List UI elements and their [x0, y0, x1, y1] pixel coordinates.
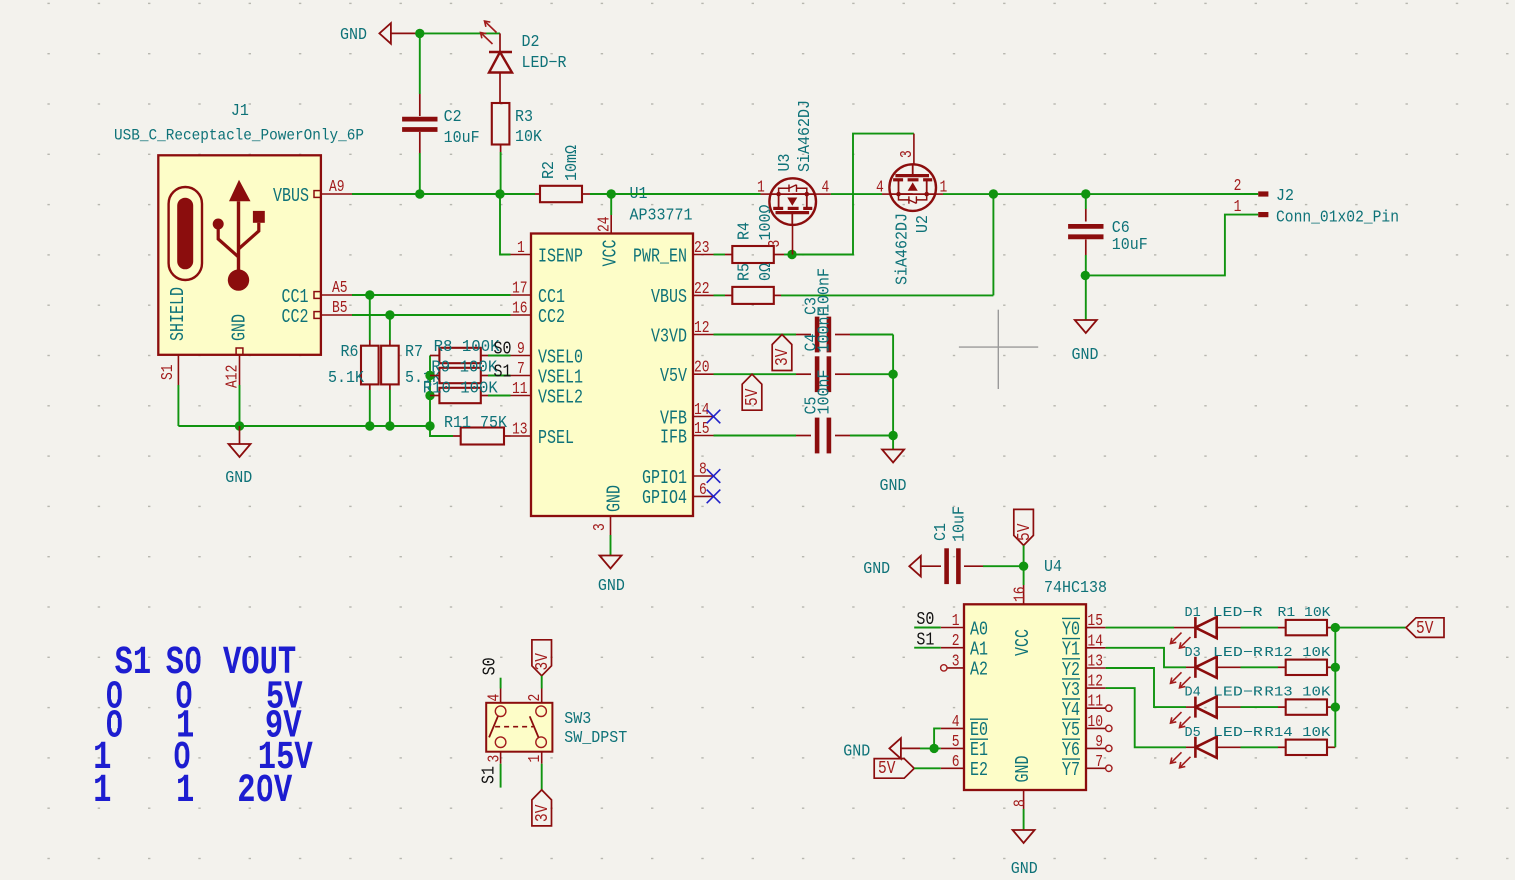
svg-text:4: 4: [876, 179, 884, 197]
svg-text:100nF: 100nF: [815, 370, 834, 415]
resistor R2: [535, 186, 761, 202]
junction C6/J2pin1: [1081, 271, 1090, 280]
pin 4 of U2: [876, 179, 889, 197]
pin 14 Y1 of U4: [1062, 633, 1106, 661]
svg-text:E2: E2: [970, 761, 988, 782]
svg-text:S1: S1: [160, 364, 178, 380]
svg-text:J2: J2: [1276, 186, 1294, 205]
capacitor C6: [1068, 194, 1103, 275]
svg-text:B5: B5: [332, 300, 348, 318]
svg-text:7: 7: [1095, 754, 1103, 772]
pin 9 VSEL0 of U1: [511, 341, 583, 369]
svg-text:4: 4: [822, 179, 830, 197]
junction R7 bottom: [385, 421, 394, 430]
power flag 5V above U4: [1014, 509, 1036, 545]
label S0 at U4: [914, 610, 941, 631]
svg-text:2: 2: [527, 694, 545, 702]
no-connect GPIO4: [707, 490, 721, 504]
svg-text:3: 3: [767, 240, 785, 248]
svg-text:VBUS: VBUS: [651, 288, 687, 309]
pin 8 GND of U4: [1012, 756, 1034, 830]
svg-text:VCC: VCC: [1013, 629, 1034, 656]
wire V3VD: [714, 334, 812, 336]
svg-text:V5V: V5V: [660, 366, 687, 387]
junction R4/U3 gate: [787, 250, 796, 259]
ground symbol caps: [880, 450, 907, 496]
svg-text:V3VD: V3VD: [651, 327, 687, 348]
pin 1 of U3: [757, 179, 770, 197]
wire E1/E0: [920, 728, 941, 748]
svg-text:R3: R3: [515, 107, 533, 126]
label U3: [775, 100, 814, 172]
svg-text:A5: A5: [332, 280, 348, 298]
pin 5 E1 of U4: [941, 734, 988, 762]
switch SW3 body: [486, 703, 552, 752]
label D4: [1185, 686, 1263, 701]
resistor R9: [430, 368, 511, 383]
junction R6 bottom: [365, 421, 374, 430]
svg-text:IFB: IFB: [660, 428, 687, 449]
svg-text:LED−R: LED−R: [1213, 686, 1263, 701]
svg-text:15: 15: [1087, 613, 1103, 631]
svg-text:D3: D3: [1185, 646, 1201, 661]
power flag 5V at E2: [874, 759, 941, 780]
pin 7 Y7 of U4: [1062, 754, 1112, 782]
wire 5V bus verticals: [1334, 628, 1336, 748]
svg-text:GND: GND: [225, 468, 252, 487]
switch SW3 poles: [489, 706, 546, 748]
cursor crosshair: [959, 310, 1038, 389]
pin 11 Y4 of U4: [1062, 694, 1112, 722]
resistor R8: [430, 348, 511, 363]
svg-text:CC2: CC2: [282, 307, 309, 328]
resistor R1: [1241, 620, 1336, 635]
wire VSEL bus vertical: [429, 356, 431, 427]
svg-text:CC2: CC2: [538, 307, 565, 328]
transistor U3 SiA462DJ: [769, 178, 816, 225]
ground flag left of C1: [863, 556, 941, 578]
svg-text:S1: S1: [494, 362, 512, 383]
label C6: [1112, 218, 1148, 254]
label R11: [444, 413, 507, 432]
wire C2 top: [419, 33, 421, 116]
pin 23 PWR_EN of U1: [633, 240, 714, 268]
svg-text:GND: GND: [340, 25, 367, 44]
svg-text:R7: R7: [405, 342, 423, 361]
svg-text:S0: S0: [480, 657, 501, 675]
LED D4: [1171, 697, 1241, 728]
connector J2 pin 1: [1234, 199, 1269, 217]
wire Y2 to D4: [1106, 668, 1186, 707]
pin 3 A2 of U4: [941, 653, 988, 681]
svg-text:8: 8: [1012, 799, 1030, 807]
no-connect VFB: [707, 410, 721, 424]
svg-text:2: 2: [952, 633, 960, 651]
connector J2 pin 2: [1234, 178, 1269, 197]
svg-text:GPIO4: GPIO4: [642, 489, 687, 510]
label SW3: [564, 709, 627, 747]
label U2: [893, 213, 932, 285]
label U4: [1044, 557, 1107, 597]
svg-text:3: 3: [592, 523, 610, 531]
svg-text:R4: R4: [735, 222, 754, 240]
wire PWR_EN: [714, 254, 726, 256]
wire 3V to SW3 pin2: [541, 676, 543, 703]
svg-text:11: 11: [1087, 694, 1103, 712]
svg-text:13: 13: [1087, 653, 1103, 671]
resistor R10: [430, 388, 511, 403]
svg-text:GND: GND: [843, 742, 870, 761]
svg-text:10mΩ: 10mΩ: [562, 145, 581, 181]
label R7: [405, 342, 441, 387]
svg-text:24: 24: [596, 216, 614, 232]
svg-text:GND: GND: [598, 576, 625, 595]
svg-text:1: 1: [176, 768, 194, 813]
pin 15 Y0 of U4: [1062, 613, 1106, 641]
svg-text:Conn_01x02_Pin: Conn_01x02_Pin: [1276, 208, 1399, 227]
connector J1 body: [158, 155, 321, 354]
junction C4 gnd: [888, 370, 897, 379]
svg-text:5V: 5V: [878, 759, 895, 780]
wire cap ground bus: [892, 335, 894, 450]
transistor U2 SiA462DJ: [889, 164, 936, 211]
svg-text:C1: C1: [931, 523, 950, 541]
svg-text:LED−R: LED−R: [1213, 726, 1263, 741]
junction CC1/R6: [365, 290, 374, 299]
svg-text:3V: 3V: [532, 805, 553, 822]
label R12: [1264, 646, 1331, 661]
wire R5 up to output: [992, 194, 994, 295]
svg-text:GPIO1: GPIO1: [642, 468, 687, 489]
svg-text:17: 17: [512, 280, 528, 298]
junction A12/GND: [235, 421, 244, 430]
svg-text:9: 9: [517, 341, 525, 359]
svg-text:D5: D5: [1185, 726, 1201, 741]
wire V5V: [714, 373, 812, 375]
resistor R6: [361, 295, 379, 426]
svg-text:10: 10: [1087, 714, 1103, 732]
pin 12 Y3 of U4: [1062, 673, 1106, 701]
pin 8 GPIO1 of U1: [642, 461, 714, 489]
wire CC2: [352, 314, 511, 316]
svg-text:GND: GND: [1072, 345, 1099, 364]
label C3: [802, 268, 834, 315]
svg-text:R8 100K: R8 100K: [434, 337, 501, 356]
svg-text:VCC: VCC: [601, 240, 622, 267]
svg-text:10uF: 10uF: [1112, 235, 1148, 254]
pin 16 VCC of U4: [1012, 566, 1034, 656]
junction VSEL2 bus: [425, 391, 434, 400]
svg-text:22: 22: [694, 281, 710, 299]
svg-text:LED−R: LED−R: [1213, 646, 1263, 661]
ground symbol below C6: [1072, 320, 1099, 364]
IC U4 body: [964, 604, 1086, 790]
junction VBUS/R3: [495, 189, 504, 198]
label C1: [931, 506, 968, 542]
svg-text:1: 1: [517, 240, 525, 258]
ground symbol below J1: [225, 426, 252, 487]
pin 3 of U2: [899, 134, 917, 165]
power flag 3V on V3VD: [772, 335, 794, 371]
label D1: [1185, 606, 1263, 621]
svg-text:13: 13: [512, 421, 528, 439]
svg-text:5V: 5V: [1416, 618, 1433, 639]
label D2: [522, 32, 567, 72]
svg-text:14: 14: [1087, 633, 1103, 651]
wire S1 to GND net: [178, 385, 430, 426]
svg-text:SHIELD: SHIELD: [168, 287, 189, 341]
svg-text:R10 100K: R10 100K: [423, 379, 499, 398]
svg-text:12: 12: [694, 320, 710, 338]
ground flag at E1: [843, 738, 920, 760]
svg-text:SiA462DJ: SiA462DJ: [795, 100, 814, 172]
svg-text:GND: GND: [880, 476, 907, 495]
svg-text:4: 4: [952, 714, 960, 732]
pin 15 IFB of U1: [660, 421, 714, 449]
label R6: [328, 342, 364, 387]
svg-text:4: 4: [486, 694, 504, 702]
junction VCC: [607, 189, 616, 198]
pin 7 VSEL1 of U1: [511, 361, 583, 389]
label R13: [1264, 686, 1331, 701]
label C5: [802, 370, 834, 415]
label S0 at SW3: [480, 657, 501, 688]
label D5: [1185, 726, 1263, 741]
wire 5V to U4 VCC: [1023, 545, 1025, 566]
svg-text:J1: J1: [231, 101, 249, 120]
svg-text:3: 3: [899, 150, 917, 158]
junction R13: [1331, 702, 1340, 711]
svg-text:R11 75K: R11 75K: [444, 413, 507, 432]
pin 2 A1 of U4: [941, 633, 988, 661]
pin GND (A12) of J1: [224, 314, 251, 388]
svg-text:VSEL0: VSEL0: [538, 348, 583, 369]
svg-text:R2: R2: [539, 161, 558, 179]
capacitor C4: [817, 356, 893, 392]
label S1 at U4: [914, 630, 941, 651]
label C4: [802, 308, 834, 353]
pin 13 Y2 of U4: [1062, 653, 1106, 681]
svg-text:5V: 5V: [742, 389, 763, 406]
svg-text:ISENP: ISENP: [538, 247, 583, 268]
svg-text:USB_C_Receptacle_PowerOnly_6P: USB_C_Receptacle_PowerOnly_6P: [114, 128, 364, 145]
resistor R12: [1241, 660, 1336, 675]
svg-text:A12: A12: [224, 365, 242, 388]
pin 1 ISENP of U1: [511, 240, 583, 268]
capacitor C2: [402, 119, 437, 194]
wire output net: [943, 193, 1258, 195]
svg-text:100nF: 100nF: [815, 268, 834, 313]
junction VSEL1 bus: [425, 371, 434, 380]
label S0 net: [494, 339, 512, 360]
svg-text:PSEL: PSEL: [538, 428, 574, 449]
label R14: [1264, 726, 1331, 741]
power flag 5V right: [1406, 618, 1444, 640]
ground flag (top, near C2): [340, 23, 420, 44]
wire J2 pin1: [1085, 215, 1258, 276]
svg-text:6: 6: [952, 754, 960, 772]
wire IFB: [714, 435, 812, 437]
svg-text:D2: D2: [522, 32, 540, 51]
junction CC2/R7: [385, 310, 394, 319]
power flag 5V on V5V: [742, 374, 764, 410]
svg-text:SW3: SW3: [564, 709, 591, 728]
svg-text:1: 1: [757, 179, 765, 197]
pin CC2 (B5) of J1: [282, 300, 353, 329]
LED D3: [1171, 657, 1241, 688]
svg-text:SiA462DJ: SiA462DJ: [893, 213, 912, 285]
label R2: [539, 145, 581, 181]
svg-text:R12 10K: R12 10K: [1264, 646, 1331, 661]
power flag 3V below SW3: [532, 790, 554, 826]
label R4: [735, 205, 775, 241]
wire U3 to U2: [831, 193, 882, 195]
svg-text:12: 12: [1087, 673, 1103, 691]
junction E0/E1: [929, 744, 938, 753]
svg-text:1: 1: [93, 768, 111, 813]
label R3: [515, 107, 542, 146]
svg-text:U4: U4: [1044, 557, 1062, 576]
svg-text:A0: A0: [970, 620, 988, 641]
capacitor C3: [817, 317, 893, 353]
pin 3 wire SW3: [479, 752, 500, 788]
svg-text:10uF: 10uF: [444, 128, 480, 147]
pin 4 wire SW3: [500, 689, 502, 703]
svg-text:16: 16: [512, 300, 528, 318]
svg-text:VBUS: VBUS: [273, 186, 309, 207]
svg-text:9: 9: [1095, 734, 1103, 752]
svg-text:R6: R6: [341, 342, 359, 361]
pin SHIELD (S1) of J1: [160, 287, 190, 385]
svg-text:CC1: CC1: [538, 287, 565, 308]
junction output/R5: [989, 189, 998, 198]
resistor R13: [1241, 699, 1336, 714]
pin 20 V5V of U1: [660, 360, 714, 388]
junction C5 gnd: [888, 431, 897, 440]
pin VBUS (A9) of J1: [273, 179, 352, 208]
resistor R14: [1241, 740, 1336, 755]
pin CC1 (A5) of J1: [282, 280, 353, 309]
svg-text:100Ω: 100Ω: [756, 205, 775, 241]
junction R1: [1331, 623, 1340, 632]
pin 6 E2 of U4: [941, 754, 988, 782]
pin numbers SW3: [486, 694, 544, 763]
svg-text:C2: C2: [444, 107, 462, 126]
svg-text:6: 6: [699, 482, 707, 500]
svg-text:8: 8: [699, 461, 707, 479]
svg-text:A9: A9: [329, 179, 345, 197]
pin 1 A0 of U4: [941, 613, 988, 641]
wire GND to D2 branch: [420, 32, 500, 34]
label J1: [114, 101, 364, 144]
pin 3 GND of U1: [592, 485, 626, 555]
junction at C2 top: [415, 29, 424, 38]
truth table text: [93, 640, 313, 813]
svg-text:U3: U3: [775, 154, 794, 172]
pin 6 GPIO4 of U1: [642, 482, 714, 510]
wire R1 to 5V: [1335, 627, 1406, 629]
svg-text:U2: U2: [913, 215, 932, 233]
svg-text:7: 7: [517, 361, 525, 379]
svg-text:R9 100K: R9 100K: [431, 358, 498, 377]
pin 3 of U3: [767, 225, 793, 255]
wire A12 down: [239, 385, 241, 426]
svg-text:S0: S0: [494, 339, 512, 360]
svg-text:R14 10K: R14 10K: [1264, 726, 1331, 741]
IC U1 body: [531, 234, 693, 517]
label S1 net: [494, 362, 512, 383]
junction GND wire / R11: [425, 421, 434, 430]
svg-text:R1 10K: R1 10K: [1278, 606, 1332, 621]
svg-text:5V: 5V: [1014, 524, 1035, 541]
svg-text:3V: 3V: [532, 653, 553, 670]
svg-text:A1: A1: [970, 640, 988, 661]
wire C6 to GND: [1085, 275, 1087, 320]
svg-text:5.1K: 5.1K: [328, 368, 364, 387]
svg-text:VSEL1: VSEL1: [538, 368, 583, 389]
svg-text:10uF: 10uF: [950, 506, 969, 542]
resistor R11: [430, 426, 511, 445]
USB trident glyph: [213, 180, 265, 291]
USB-C receptacle glyph: [169, 187, 202, 280]
junction R12: [1331, 663, 1340, 672]
pin 11 VSEL2 of U1: [511, 381, 583, 409]
pin 1 wire SW3: [541, 752, 543, 790]
svg-text:SW_DPST: SW_DPST: [564, 728, 627, 747]
svg-text:R13 10K: R13 10K: [1264, 686, 1331, 701]
pin 17 CC1 of U1: [511, 280, 565, 308]
pin 14 VFB of U1: [660, 402, 714, 430]
label J2: [1276, 186, 1399, 226]
wire VBUS from J1: [352, 193, 535, 195]
svg-text:CC1: CC1: [282, 287, 309, 308]
pin 10 Y5 of U4: [1062, 714, 1112, 742]
resistor R4: [725, 246, 792, 263]
svg-text:0Ω: 0Ω: [756, 263, 775, 281]
capacitor C5: [817, 418, 893, 454]
LED D1: [1171, 617, 1241, 648]
label R1: [1278, 606, 1332, 621]
svg-text:1: 1: [952, 613, 960, 631]
svg-text:VSEL2: VSEL2: [538, 388, 583, 409]
label R9: [431, 358, 498, 377]
svg-text:5: 5: [952, 734, 960, 752]
pin 1 of U2: [936, 179, 948, 197]
svg-text:S1: S1: [479, 766, 500, 784]
svg-text:20: 20: [694, 360, 710, 378]
resistor R7: [381, 315, 399, 426]
ground symbol below U1: [598, 556, 625, 596]
pin 13 PSEL of U1: [511, 421, 574, 449]
svg-text:2: 2: [1234, 178, 1242, 196]
pin 16 CC2 of U1: [511, 300, 565, 328]
svg-text:GND: GND: [1011, 859, 1038, 878]
ground symbol below U4: [1011, 830, 1038, 878]
wire ISENP: [500, 194, 511, 255]
wire gate U3 to U2 pin3: [792, 134, 914, 255]
pin 12 V3VD of U1: [651, 320, 714, 348]
wire VBUS22: [714, 294, 726, 296]
no-connect GPIO1: [707, 469, 721, 483]
capacitor C1: [947, 548, 1024, 584]
svg-text:GND: GND: [605, 485, 626, 512]
pin 22 VBUS of U1: [651, 281, 714, 309]
pin 4 of U3: [816, 179, 831, 197]
svg-text:1: 1: [1234, 199, 1242, 217]
pin 9 Y6 of U4: [1062, 734, 1112, 762]
wire Y1 to D3: [1106, 648, 1186, 668]
svg-text:Y7: Y7: [1062, 761, 1080, 782]
